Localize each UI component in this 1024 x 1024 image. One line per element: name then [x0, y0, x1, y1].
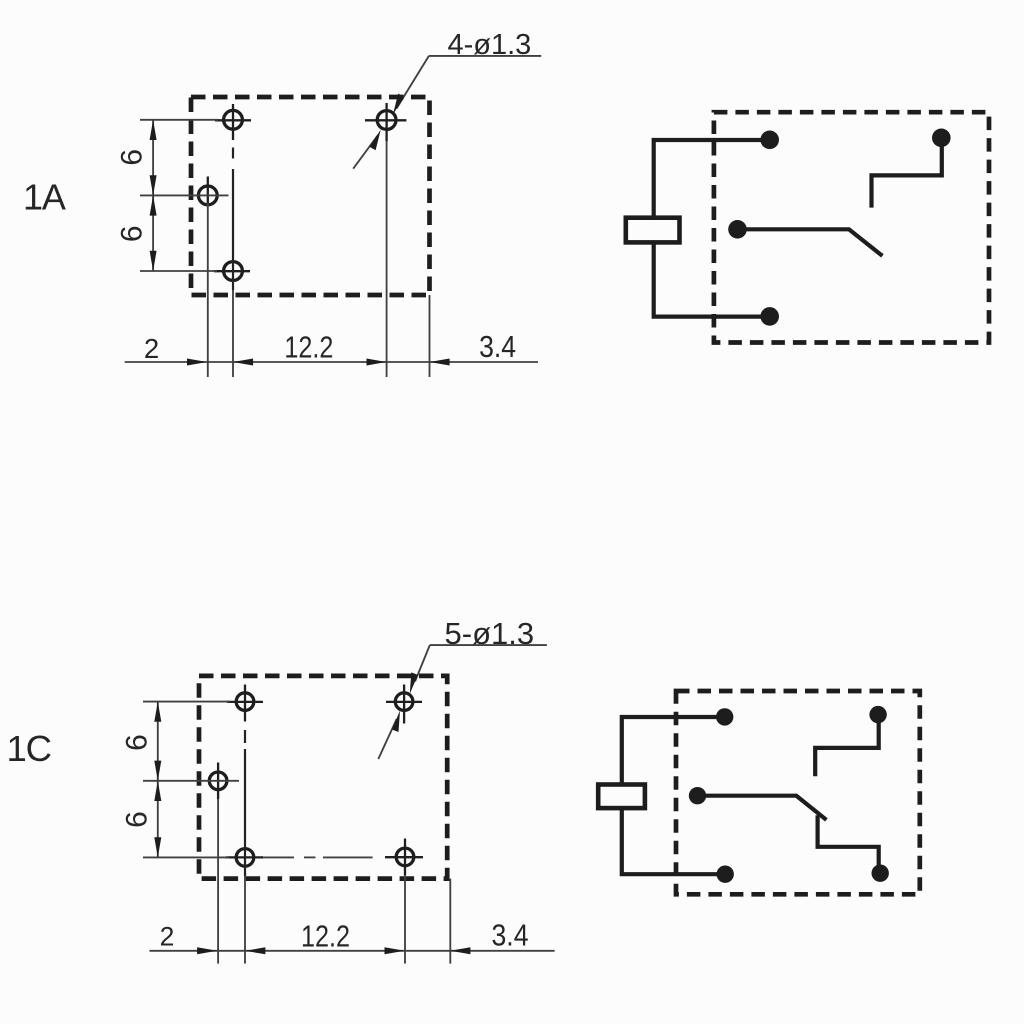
- relay outline (1C bottom view): [199, 676, 447, 879]
- bottom dimension line: [150, 947, 555, 954]
- pin hole 1A top-left: [215, 104, 251, 140]
- coil K1: [626, 218, 680, 243]
- relay K1 boundary (1A schematic): [714, 112, 989, 342]
- centerline pin2 column: [207, 203, 209, 377]
- center dash-dot line bottom row: [304, 856, 373, 858]
- callout 4-diam1.3: [353, 29, 541, 169]
- wire switch arm: [738, 229, 883, 256]
- vertical dimension line 6+6: [154, 702, 161, 858]
- wire coil bottom to pin: [654, 242, 770, 316]
- svg-text:3.4: 3.4: [492, 919, 529, 953]
- svg-text:12.2: 12.2: [301, 920, 350, 954]
- svg-text:6: 6: [121, 734, 154, 751]
- node coil pin bottom: [717, 866, 734, 883]
- pin hole 1C bottom-left: [226, 849, 263, 867]
- centerline pin1/3 column: [232, 148, 234, 378]
- extension line row3: [140, 270, 217, 272]
- relay outline (1A bottom view): [191, 97, 430, 295]
- pin hole 1C top-right: [386, 685, 422, 724]
- pin hole 1C top-left: [227, 685, 263, 722]
- coil K2: [598, 785, 645, 809]
- wire NC contact step: [815, 715, 879, 777]
- wire coil top to pin: [654, 140, 770, 218]
- callout 5-diam1.3: [378, 616, 547, 759]
- node NO contact pin: [872, 865, 889, 882]
- centerline pin5 column: [404, 875, 406, 964]
- node common pin: [689, 787, 706, 804]
- svg-text:2: 2: [160, 922, 175, 952]
- wire NO contact step: [818, 815, 879, 873]
- pin hole 1C bottom-right: [385, 839, 423, 876]
- bottom dimension line: [125, 359, 538, 366]
- wire NO contact step: [872, 138, 942, 208]
- svg-text:1A: 1A: [23, 176, 66, 217]
- svg-text:6: 6: [116, 149, 149, 166]
- vertical dimension line 6+6: [150, 120, 157, 271]
- node coil pin top: [760, 131, 779, 150]
- node coil pin bottom: [760, 307, 779, 326]
- svg-text:6: 6: [121, 811, 154, 828]
- extension line right edge: [449, 879, 451, 964]
- extension line right edge: [429, 295, 431, 377]
- node coil pin top: [716, 708, 733, 725]
- svg-text:12.2: 12.2: [284, 331, 333, 365]
- svg-text:2: 2: [144, 333, 159, 364]
- node common pin: [728, 220, 747, 239]
- pin hole 1A coil-left: [198, 177, 217, 205]
- node NO contact pin: [932, 129, 951, 148]
- centerline pin1/3 column: [244, 730, 246, 964]
- relay K2 boundary (1C schematic): [676, 691, 920, 894]
- extension line row1: [143, 701, 230, 703]
- svg-text:3.4: 3.4: [479, 330, 516, 364]
- wire switch arm: [698, 796, 827, 820]
- wire coil top to pin: [622, 717, 725, 785]
- node NC contact pin: [869, 706, 886, 723]
- extension line row1: [140, 119, 218, 121]
- extension line row2: [140, 194, 229, 196]
- pin hole 1A bottom-left: [214, 262, 250, 281]
- wire coil bottom to pin: [622, 808, 725, 874]
- extension line row3: [143, 856, 229, 858]
- centerline pin2 column: [217, 799, 219, 964]
- pin hole 1C coil-left: [209, 763, 227, 800]
- centerline pin4 column: [386, 141, 388, 377]
- svg-text:6: 6: [116, 225, 149, 242]
- extension line row2: [143, 780, 239, 782]
- pin hole 1A contact-right: [365, 103, 406, 141]
- svg-text:1C: 1C: [7, 728, 51, 769]
